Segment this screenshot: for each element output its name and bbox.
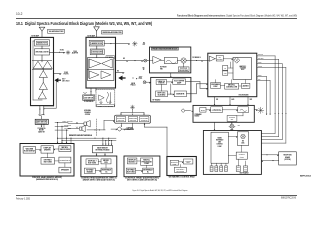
wire speaker bus bbox=[87, 120, 115, 130]
svg-text:RX: RX bbox=[117, 70, 119, 72]
reference osc box bbox=[156, 91, 168, 97]
SIU bottom right connectors bbox=[236, 159, 248, 171]
keypad box bbox=[41, 158, 55, 164]
SIU internal wires bbox=[228, 136, 241, 155]
svg-text:OPTION: OPTION bbox=[130, 120, 137, 122]
svg-text:16.8 MHz: 16.8 MHz bbox=[158, 95, 166, 97]
mixer M1 bbox=[181, 58, 186, 63]
SIU ASIC box bbox=[237, 132, 248, 146]
SIU audio box bbox=[236, 152, 247, 159]
caption W4 head bbox=[81, 176, 117, 181]
svg-text:IC: IC bbox=[106, 171, 108, 173]
svg-text:BUTTONS: BUTTONS bbox=[127, 171, 135, 173]
svg-text:FILTER: FILTER bbox=[64, 73, 69, 75]
SIU bottom connectors bbox=[210, 163, 227, 171]
svg-text:FRONT END RECEIVER BLOCK: FRONT END RECEIVER BLOCK bbox=[152, 49, 177, 51]
bus wires VOCON to SIU bbox=[257, 54, 286, 113]
running header bbox=[177, 14, 297, 17]
speakers cell box bbox=[115, 115, 151, 123]
3rd LO box bbox=[222, 71, 227, 75]
svg-text:IGN: IGN bbox=[238, 125, 240, 127]
W4 micro box bbox=[101, 159, 111, 164]
block receiver board option bbox=[279, 152, 297, 165]
svg-text:RX: RX bbox=[123, 58, 125, 60]
2nd LO box bbox=[222, 66, 227, 71]
svg-text:EXP: EXP bbox=[201, 109, 205, 111]
audio filter box bbox=[238, 107, 249, 113]
svg-text:IN: IN bbox=[143, 69, 144, 71]
antenna connector label J1 bbox=[48, 29, 65, 33]
head micro box bbox=[59, 146, 71, 152]
bus wires into SIU bbox=[249, 113, 287, 143]
svg-text:CPU: CPU bbox=[186, 162, 190, 164]
svg-text:TX INJ: TX INJ bbox=[60, 49, 65, 51]
command board input diamond bbox=[181, 109, 193, 113]
block W3 handheld head bbox=[167, 157, 196, 176]
drawing number bbox=[300, 175, 312, 178]
W3 keypad box bbox=[174, 167, 186, 172]
svg-text:BUTTONS: BUTTONS bbox=[88, 162, 96, 164]
head audio box bbox=[59, 167, 71, 173]
svg-text:MICRO-: MICRO- bbox=[143, 159, 150, 161]
dashed divider bbox=[95, 119, 97, 136]
svg-text:MICRO: MICRO bbox=[103, 160, 109, 162]
svg-text:DSP: DSP bbox=[214, 86, 218, 88]
RF amplifier U1 bbox=[153, 57, 161, 64]
svg-text:DSP56603: DSP56603 bbox=[211, 84, 220, 86]
remote wire rows bbox=[55, 121, 73, 131]
wire command to SIU bbox=[214, 122, 215, 130]
amplifier A1 A2 bbox=[89, 59, 112, 68]
W7 keypad box bbox=[126, 168, 135, 173]
svg-text:MOUNT: MOUNT bbox=[39, 130, 44, 132]
VOCON internal wires bbox=[216, 80, 246, 86]
svg-text:Functional Block Diagrams and: Functional Block Diagrams and Interconne… bbox=[177, 14, 297, 17]
preselector filter bbox=[164, 58, 177, 64]
internal wires PA1 bbox=[33, 41, 43, 100]
W4 interface box bbox=[101, 168, 112, 173]
svg-text:TO REMOTE: TO REMOTE bbox=[38, 128, 46, 130]
wire TX out to mixer bbox=[50, 49, 65, 53]
svg-text:BUTTONS: BUTTONS bbox=[44, 161, 52, 163]
amplifier stage box PA2 bbox=[87, 58, 114, 81]
svg-text:Figure 10-1. Digital Spectra: Figure 10-1. Digital Spectra Models W3, … bbox=[133, 189, 188, 192]
antenna switch box bbox=[35, 119, 48, 124]
TIB interface box bbox=[93, 146, 113, 153]
svg-text:FILTER: FILTER bbox=[217, 59, 223, 61]
wires below PA2 bbox=[90, 88, 96, 95]
VCO box bbox=[173, 79, 186, 85]
W7 interface box bbox=[143, 168, 154, 173]
svg-text:LCD: LCD bbox=[173, 163, 177, 165]
svg-text:February 3, 2003: February 3, 2003 bbox=[16, 198, 31, 201]
antenna ANT1 bbox=[39, 27, 45, 37]
svg-text:OPTION: OPTION bbox=[85, 114, 90, 116]
pendulum box bbox=[174, 91, 186, 97]
IF amplifier U2 bbox=[209, 56, 215, 61]
display box bbox=[23, 147, 36, 153]
wires in receiver bbox=[148, 61, 184, 67]
svg-text:MICRO: MICRO bbox=[185, 160, 191, 162]
label VOCON bbox=[239, 94, 250, 97]
injection filter box bbox=[178, 67, 189, 72]
bold arrow power control bbox=[56, 79, 70, 83]
svg-text:(OPTION): (OPTION) bbox=[284, 159, 291, 161]
wire RX out left PA bbox=[54, 72, 69, 75]
svg-text:REF OSC: REF OSC bbox=[158, 93, 166, 95]
svg-text:PROCESSOR: PROCESSOR bbox=[142, 161, 152, 163]
svg-text:VCO / BUFFER: VCO / BUFFER bbox=[174, 81, 184, 83]
bus wires lower pair bbox=[257, 75, 271, 115]
speaker connector symbol bbox=[230, 122, 234, 130]
block 800 MHz power amplifier bbox=[86, 37, 116, 88]
caption W3 head bbox=[169, 176, 195, 179]
svg-text:REMOTE MOUNT MODELS: REMOTE MOUNT MODELS bbox=[69, 135, 92, 137]
section heading bbox=[16, 21, 152, 26]
block RF board bbox=[151, 77, 191, 102]
SIU power symbol bbox=[229, 122, 240, 130]
speaker cell drops bbox=[121, 123, 133, 130]
svg-text:INJ FILTER: INJ FILTER bbox=[179, 70, 188, 72]
speaker SPK1 bbox=[68, 120, 90, 127]
label remote mount bbox=[69, 135, 92, 137]
amplifier Q5 bbox=[38, 92, 46, 99]
speaker audio box bbox=[227, 116, 237, 122]
svg-text:BUTTONS: BUTTONS bbox=[177, 171, 185, 173]
wire to antenna network bbox=[38, 124, 46, 133]
svg-text:SPK: SPK bbox=[250, 99, 253, 101]
svg-text:SIU: SIU bbox=[242, 141, 244, 143]
block control head dash W4 bbox=[81, 156, 117, 177]
svg-text:DIVIDER: DIVIDER bbox=[176, 94, 184, 96]
block command board bbox=[193, 105, 254, 122]
svg-text:RECEPTION: RECEPTION bbox=[283, 155, 291, 157]
label RX IN bbox=[143, 68, 145, 71]
speaker star symbol bbox=[120, 105, 144, 115]
svg-text:RS-485 BUS: RS-485 BUS bbox=[64, 124, 71, 126]
svg-text:LO: LO bbox=[224, 67, 226, 69]
DSP box bbox=[211, 83, 221, 89]
receiver input connector bbox=[144, 59, 147, 62]
svg-text:OPTION: OPTION bbox=[118, 120, 125, 122]
label inside receiver bbox=[160, 67, 167, 71]
figure caption bbox=[133, 189, 188, 192]
svg-text:MICRO-: MICRO- bbox=[228, 85, 236, 87]
block control head dash W7 bbox=[124, 156, 160, 177]
svg-text:LOGIC: LOGIC bbox=[218, 146, 222, 148]
amplifier Q4 bbox=[39, 83, 47, 90]
W7 display box bbox=[127, 158, 136, 164]
wire receiver to RF board bbox=[170, 73, 171, 78]
svg-text:SWB+ / IGNITION: SWB+ / IGNITION bbox=[62, 121, 72, 123]
label SIU bbox=[240, 172, 249, 175]
svg-text:RX FRONT: RX FRONT bbox=[160, 67, 167, 69]
label above speakers bbox=[84, 109, 91, 116]
block VOCON board bbox=[208, 53, 257, 96]
svg-text:CNTL VOLT: CNTL VOLT bbox=[62, 81, 70, 83]
coax squiggle right PA bbox=[84, 92, 87, 95]
mixer diamond bbox=[234, 57, 240, 63]
command board wires bbox=[193, 110, 243, 119]
antenna connector label J2 bbox=[102, 31, 123, 34]
expansion box bbox=[200, 107, 206, 112]
RF detector box bbox=[83, 95, 95, 103]
block VHF/UHF power amplifier bbox=[31, 37, 54, 105]
head interface box bbox=[59, 157, 71, 163]
internal wires PA2 bbox=[88, 46, 96, 78]
RF board input symbol bbox=[143, 81, 151, 84]
receiver title bar bbox=[151, 48, 178, 51]
W7 micro box bbox=[141, 158, 153, 165]
block receiver front end bbox=[150, 47, 191, 73]
junction dots control head bbox=[57, 122, 72, 144]
harmonic filter assembly (dashed) bbox=[96, 90, 115, 108]
diamond connector bbox=[111, 127, 134, 131]
fractional-N synth box bbox=[156, 80, 167, 85]
wire IF out bbox=[186, 57, 208, 62]
label small PA2 bbox=[106, 56, 115, 59]
svg-text:FILT: FILT bbox=[143, 44, 146, 46]
control return wires left PA bbox=[44, 74, 56, 109]
wires SIU to receiver option bbox=[261, 154, 278, 162]
wire RX into receiver bbox=[116, 58, 148, 62]
accessory connector star bbox=[254, 107, 263, 113]
svg-text:10.1 Digital Spectra Function: 10.1 Digital Spectra Functional Block Di… bbox=[16, 21, 152, 26]
svg-text:CONTROLLER: CONTROLLER bbox=[226, 87, 237, 89]
svg-text:10-2: 10-2 bbox=[16, 12, 23, 16]
directional coupler 2 bbox=[90, 49, 104, 55]
caption W7 head bbox=[125, 176, 160, 181]
wire TX INJ right PA bbox=[104, 41, 137, 46]
amplifier Q3 bbox=[39, 71, 47, 78]
TX INJ off-page star bbox=[66, 51, 78, 55]
svg-text:6881076C20-B: 6881076C20-B bbox=[281, 197, 296, 200]
control head interface box bbox=[211, 107, 223, 113]
svg-text:VCO: VCO bbox=[224, 73, 227, 75]
wire RF board to VOCON bbox=[186, 82, 208, 94]
block SIU bbox=[203, 131, 261, 175]
bold arrow power control 2 bbox=[120, 76, 143, 79]
svg-text:MIC: MIC bbox=[258, 79, 260, 81]
microphone MIC1 bbox=[68, 122, 85, 132]
svg-text:IC: IC bbox=[147, 171, 149, 173]
label J101 bbox=[143, 42, 146, 45]
caption control head remote bbox=[32, 176, 63, 181]
W4 wires bbox=[95, 162, 106, 172]
bus lines long bbox=[58, 138, 117, 141]
RF board wires bbox=[161, 82, 174, 96]
harmonic filter FL2 bbox=[89, 40, 104, 46]
directional coupler bbox=[35, 49, 50, 55]
driver amplifiers Q1 Q2 bbox=[32, 60, 52, 69]
wires VOCON to command board bbox=[214, 97, 252, 106]
radio interface box bbox=[211, 132, 228, 163]
wire cellbox to W3 head bbox=[144, 123, 167, 156]
W3 display box bbox=[170, 160, 178, 165]
ABACUS IC box bbox=[233, 58, 251, 80]
coax W1 bbox=[39, 114, 45, 119]
footer date bbox=[16, 198, 31, 201]
wires below PA1 bbox=[39, 106, 44, 115]
svg-text:(W4/W5/W7/W9 MODELS): (W4/W5/W7/W9 MODELS) bbox=[36, 179, 59, 181]
W4 keypad box bbox=[84, 168, 95, 173]
label FROM FRACN bbox=[131, 83, 136, 86]
microcontroller box bbox=[225, 83, 239, 89]
IF filter box bbox=[216, 55, 223, 61]
label TX RF BOARD bbox=[31, 35, 39, 38]
block control head remote bbox=[20, 144, 74, 177]
footer part number bbox=[281, 197, 296, 200]
svg-text:SPKR: SPKR bbox=[258, 75, 262, 77]
page number bbox=[16, 12, 23, 16]
svg-text:MODULE: MODULE bbox=[129, 161, 136, 163]
svg-text:CONTROL: CONTROL bbox=[217, 144, 224, 146]
svg-text:1ST MIXER IF: 1ST MIXER IF bbox=[192, 57, 201, 59]
svg-text:9.6 V: 9.6 V bbox=[62, 79, 65, 81]
footer rule bbox=[16, 194, 297, 197]
svg-text:RX IC: RX IC bbox=[241, 69, 245, 71]
svg-text:END: END bbox=[160, 68, 163, 70]
W4 display box bbox=[86, 159, 98, 165]
svg-text:VEHICLE: VEHICLE bbox=[213, 108, 221, 110]
amplifier A3 A4 bbox=[89, 71, 110, 79]
W3 cpu box bbox=[183, 159, 193, 164]
header rule bbox=[16, 17, 297, 20]
audio PA box bbox=[241, 83, 250, 88]
harmonic filter FL1 bbox=[35, 40, 50, 46]
antenna ANT2 bbox=[94, 27, 100, 37]
svg-text:TO SECURE RF: TO SECURE RF bbox=[84, 101, 94, 103]
svg-text:DRIVER: DRIVER bbox=[44, 150, 51, 152]
svg-text:CNTL: CNTL bbox=[139, 78, 143, 80]
svg-text:PROCESSOR: PROCESSOR bbox=[60, 149, 70, 151]
control head wires bbox=[36, 149, 65, 167]
W3 wires bbox=[179, 162, 184, 168]
wire RX out right PA bbox=[116, 70, 125, 73]
W7 wires bbox=[136, 161, 147, 172]
svg-text:SPI BUS: SPI BUS bbox=[258, 54, 263, 56]
svg-text:MICRO-: MICRO- bbox=[62, 147, 69, 149]
VOCON wires top bbox=[208, 59, 233, 73]
display driver box bbox=[41, 146, 54, 153]
bus drop wires bbox=[102, 138, 112, 146]
svg-text:1ST LO: 1ST LO bbox=[180, 68, 187, 70]
wires TIB to control heads bbox=[96, 153, 106, 156]
label RF PA BOARD bbox=[87, 35, 95, 38]
svg-text:LOGIC: LOGIC bbox=[144, 163, 149, 165]
